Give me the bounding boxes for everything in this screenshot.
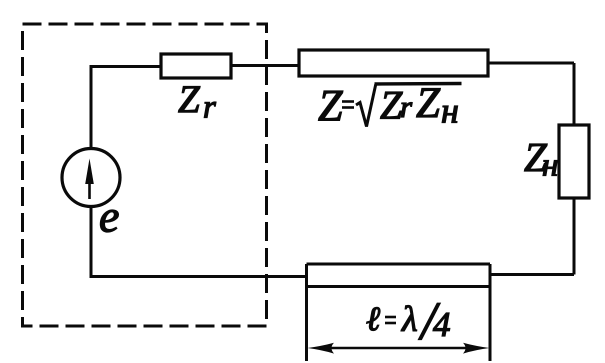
svg-text:Z: Z <box>318 81 343 130</box>
svg-text:н: н <box>542 148 558 184</box>
svg-text:e: e <box>99 191 119 242</box>
svg-text:Z: Z <box>178 78 201 121</box>
svg-text:4: 4 <box>433 305 451 344</box>
svg-text:н: н <box>441 91 459 131</box>
svg-text:ℓ: ℓ <box>366 301 380 338</box>
svg-text:λ: λ <box>401 299 418 339</box>
svg-text:Z: Z <box>416 80 441 127</box>
svg-text:r: r <box>400 89 413 124</box>
svg-text:r: r <box>203 90 216 126</box>
